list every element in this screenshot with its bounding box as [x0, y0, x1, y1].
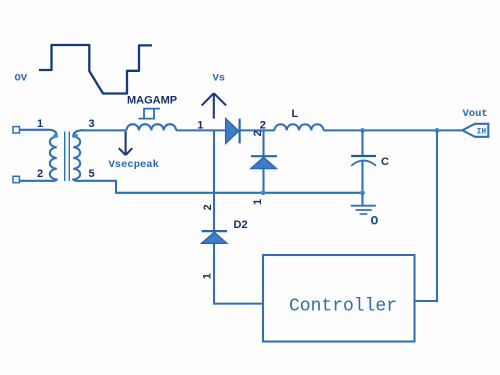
inductor L [275, 124, 324, 130]
svg-text:2: 2 [202, 204, 214, 210]
ground [351, 193, 376, 214]
junction cap top [360, 128, 365, 133]
svg-text:2: 2 [260, 119, 266, 131]
terminal pin2 square [13, 176, 19, 182]
primary winding [50, 130, 57, 181]
wire pin1 [20, 129, 51, 131]
svg-text:L: L [292, 108, 299, 120]
svg-text:O: O [371, 213, 379, 228]
wire D1 to L [240, 129, 275, 131]
output port connector [462, 124, 488, 137]
wire pin5 lower rail [80, 181, 363, 193]
junction cap bottom / ground node [360, 190, 365, 195]
Vs arrow [202, 93, 226, 118]
wire pin2 [20, 180, 52, 182]
phasing dot primary [53, 134, 57, 138]
diode D2 [201, 231, 227, 243]
svg-text:C: C [381, 156, 389, 168]
svg-text:1: 1 [37, 118, 43, 130]
wire pin3 to magamp [83, 129, 127, 131]
transformer T1 [13, 118, 95, 183]
svg-text:2: 2 [252, 130, 264, 136]
svg-text:3: 3 [89, 118, 95, 130]
magamp coil L1 [127, 124, 177, 130]
freewheel diode D3 [251, 156, 277, 168]
svg-text:Vout: Vout [463, 108, 488, 120]
svg-text:1: 1 [197, 119, 203, 131]
svg-text:MAGAMP: MAGAMP [127, 94, 177, 106]
junction freewheel anode [261, 190, 266, 195]
wire magamp to D1 [176, 129, 226, 131]
freewheel diode wire bottom [262, 169, 264, 193]
junction vout node [435, 128, 440, 133]
svg-text:2: 2 [37, 168, 43, 180]
waveform sketch [39, 45, 152, 94]
svg-text:1: 1 [201, 273, 213, 279]
svg-text:Controller: Controller [289, 297, 397, 317]
capacitor C plates [351, 155, 376, 157]
svg-text:D2: D2 [234, 219, 248, 231]
phasing dot secondary [74, 134, 78, 138]
capacitor C lead top [361, 130, 363, 155]
controller box U1 [263, 255, 415, 342]
svg-text:1: 1 [252, 199, 264, 205]
svg-text:5: 5 [89, 168, 95, 180]
secondary winding [73, 130, 83, 181]
capacitor C lead bottom [361, 161, 363, 193]
svg-text:OV: OV [15, 73, 28, 85]
terminal pin1 square [13, 127, 19, 133]
diode D1 [226, 119, 240, 144]
core lines [65, 132, 70, 182]
wire vout node down to controller [415, 130, 438, 301]
freewheel diode wire top [262, 131, 264, 156]
Vsecpeak arrow [119, 132, 132, 156]
wire node1 down to D2 [213, 131, 215, 231]
magamp core symbol [139, 109, 161, 119]
wire L to output [324, 129, 463, 131]
svg-text:Vsecpeak: Vsecpeak [109, 159, 159, 171]
svg-text:IH: IH [477, 128, 487, 137]
wire D2 to controller [214, 243, 263, 303]
svg-text:Vs: Vs [213, 72, 226, 84]
